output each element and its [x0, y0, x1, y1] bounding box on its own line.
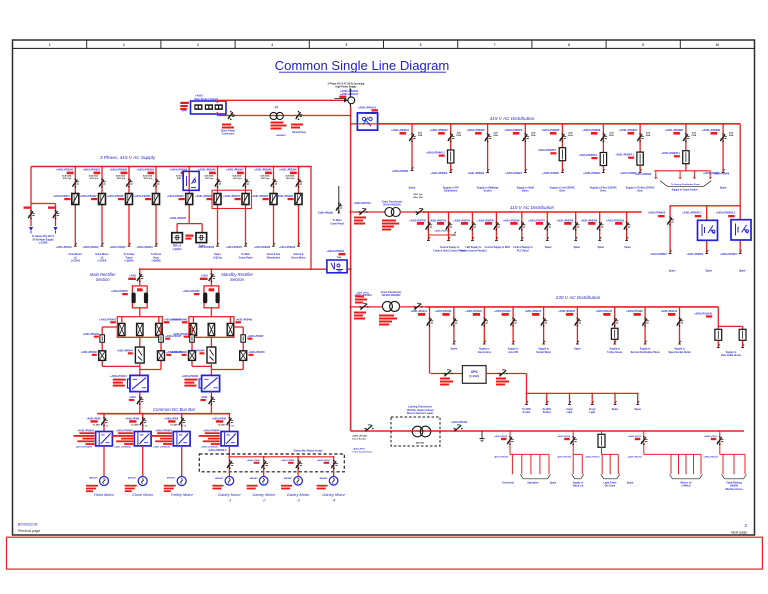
switch Q15 — [560, 134, 565, 141]
wire 230V right corner — [717, 307, 719, 327]
feeder 415V #2 — [450, 124, 452, 173]
switch standby Q1 — [209, 274, 214, 281]
switch QD2 — [140, 418, 145, 425]
drive U1 — [96, 432, 113, 446]
svg-text:Spare: Spare — [720, 186, 727, 189]
svg-text:3 Phase 415 V AC 50 Hz Incomin: 3 Phase 415 V AC 50 Hz Incoming — [328, 83, 365, 86]
feeder 110V right #1 — [669, 206, 671, 254]
svg-text:BCM31128: BCM31128 — [18, 521, 38, 526]
fuse F230-R1 — [717, 326, 719, 329]
svg-text:Service Distribution Panel: Service Distribution Panel — [631, 351, 660, 354]
feeder 110V #2 — [448, 212, 450, 241]
svg-text:+A001+P008#2.1: +A001+P008#2.1 — [682, 212, 702, 215]
feeder 3ph #1 — [74, 167, 76, 247]
feeder 230V #6 — [576, 307, 578, 344]
fuse F230-7 — [611, 328, 618, 339]
svg-text:Shore Power: Shore Power — [221, 131, 235, 133]
svg-text:+A001 (+P006#4): +A001 (+P006#4) — [201, 445, 218, 448]
feeder 3ph #2 — [101, 167, 103, 247]
feeder 230V #1 — [429, 307, 431, 374]
label drive 1 — [79, 432, 94, 434]
gantry tap #1 — [228, 457, 230, 477]
switch Q33-4 — [510, 319, 515, 326]
svg-text:+A001+P003#7: +A001+P003#7 — [226, 169, 244, 172]
svg-text:Crane Socket Panel: Crane Socket Panel — [353, 451, 373, 454]
svg-text:(+Q10x): (+Q10x) — [173, 248, 182, 251]
svg-text:Socket: Socket — [484, 190, 492, 193]
switch Q22 — [416, 209, 423, 215]
switch Q23-5 — [519, 223, 524, 230]
svg-text:+A001+P004#4: +A001+P004#4 — [188, 350, 205, 353]
switch Q13 — [485, 134, 490, 141]
wire UPS riser — [526, 374, 528, 394]
svg-text:+A001+P003#4: +A001+P003#4 — [134, 195, 151, 198]
svg-text:+A001+P011#7: +A001+P011#7 — [596, 310, 613, 313]
svg-text:480VAC: 480VAC — [284, 477, 293, 480]
svg-text:Motors x5: Motors x5 — [681, 481, 693, 484]
fuse F18 — [683, 151, 689, 164]
switch Q16 — [601, 134, 606, 141]
svg-text:+A001+P011#6: +A001+P011#6 — [558, 310, 575, 313]
svg-text:Socket: Socket — [543, 411, 551, 414]
wire standby right branch — [234, 326, 243, 328]
switch main DC — [139, 392, 141, 414]
svg-text:+A001+P003#4: +A001+P003#4 — [136, 169, 154, 172]
bottom red box — [7, 537, 763, 569]
svg-text:DC 480V: DC 480V — [218, 424, 226, 427]
motor gantry M1 — [225, 477, 234, 486]
wire standby centre — [210, 337, 212, 347]
svg-text:+A001+P008#2.2: +A001+P008#2.2 — [716, 212, 736, 215]
svg-text:+A001+P006#4: +A001+P006#4 — [203, 429, 220, 432]
svg-text:+A001+P011#3: +A001+P011#3 — [465, 310, 482, 313]
motor M3 — [177, 477, 186, 486]
switch Q19 — [720, 134, 725, 141]
svg-text:+A001+P009#6: +A001+P009#6 — [583, 172, 600, 175]
switch Q35 — [499, 370, 506, 376]
svg-text:Section: Section — [230, 277, 245, 282]
svg-text:+A001+P011#1: +A001+P011#1 — [410, 310, 427, 313]
svg-text:+A001+P003#6: +A001+P003#6 — [198, 169, 216, 172]
svg-text:+A001+P010: +A001+P010 — [356, 292, 370, 295]
svg-text:+A001: +A001 — [201, 274, 209, 277]
svg-text:+A001+P004#9: +A001+P004#9 — [173, 333, 190, 336]
incoming drop B — [55, 204, 57, 227]
svg-text:30 kVA 400/110V: 30 kVA 400/110V — [383, 203, 401, 206]
lashing transformer box — [391, 417, 440, 446]
wire gantry drive to busbar — [228, 446, 230, 457]
switch Q23-2 — [446, 223, 451, 230]
switch Q24 right cluster — [667, 218, 672, 225]
motor M1 — [100, 477, 109, 486]
svg-text:630A: 630A — [646, 134, 651, 137]
svg-text:+A001 (+P006#1): +A001 (+P006#1) — [75, 445, 92, 448]
svg-text:415V 3ph: 415V 3ph — [261, 177, 270, 180]
svg-text:+A001+P003#3: +A001+P003#3 — [109, 246, 126, 249]
drive U3 — [173, 432, 190, 446]
svg-text:+A001+P012#2: +A001+P012#2 — [703, 455, 718, 458]
svg-text:+A001+P009#9: +A001+P009#9 — [713, 173, 730, 176]
incoming drop A — [30, 204, 32, 227]
svg-text:+A001+P003#7: +A001+P003#7 — [223, 195, 240, 198]
switch Q3ph-9 — [296, 180, 301, 187]
svg-text:+A001+P009#2.1: +A001+P009#2.1 — [426, 152, 445, 155]
svg-text:5x 230V: 5x 230V — [522, 409, 531, 411]
svg-text:Section: Section — [96, 277, 111, 282]
svg-text:+A001+P012#2: +A001+P012#2 — [557, 455, 572, 458]
svg-text:+A001+P006#2.2: +A001+P006#2.2 — [208, 449, 227, 452]
feeder 110V right #3 — [739, 206, 741, 254]
svg-text:480VAC: 480VAC — [215, 477, 224, 480]
rectifier unit main — [128, 379, 131, 388]
breaker standby right — [240, 351, 247, 361]
svg-text:480VDC: 480VDC — [128, 477, 137, 480]
feeder 3ph #8 — [273, 167, 275, 247]
svg-text:Cable Reeling: Cable Reeling — [726, 482, 742, 484]
feeder 230V #2 — [453, 307, 455, 344]
svg-text:630A: 630A — [493, 134, 498, 137]
switch Q18 — [683, 134, 688, 141]
switch incoming — [53, 211, 58, 218]
svg-text:(1 kVA): (1 kVA) — [469, 374, 479, 378]
UPS unit — [462, 366, 486, 384]
svg-text:+A001+P004#8: +A001+P004#8 — [81, 351, 98, 354]
svg-text:+A001+P003#3: +A001+P003#3 — [109, 169, 127, 172]
svg-text:+A001+P003#2: +A001+P003#2 — [82, 246, 99, 249]
wire main left branch — [102, 326, 117, 328]
feeder 415V #3 — [487, 124, 489, 173]
svg-text:+A001+P012: +A001+P012 — [353, 448, 366, 451]
svg-text:+A001+P009#1: +A001+P009#1 — [391, 128, 410, 132]
svg-text:Trolley Motor: Trolley Motor — [170, 492, 193, 497]
switch Q33-6 — [575, 319, 580, 326]
switch Q23-6 — [545, 223, 550, 230]
svg-text:10: 10 — [716, 43, 720, 47]
svg-text:Connection: Connection — [222, 132, 235, 135]
svg-text:(+Q406): (+Q406) — [152, 260, 161, 263]
bus 415V AC — [378, 123, 741, 125]
svg-text:PLC Panel: PLC Panel — [517, 250, 529, 252]
switch Q11 — [409, 134, 414, 141]
svg-text:440/230V: 440/230V — [416, 442, 425, 445]
drive drop #3 — [181, 414, 183, 432]
lashing group #3 bracket — [601, 474, 620, 479]
svg-text:+A001+P003#9: +A001+P003#9 — [279, 169, 297, 172]
fuse F15 — [559, 148, 565, 161]
bus DC — [97, 413, 229, 415]
svg-text:7: 7 — [494, 43, 496, 47]
wire UPS out — [486, 373, 526, 375]
svg-text:+A001+P003#5: +A001+P003#5 — [169, 217, 186, 220]
switch Q01 shore isolator — [228, 112, 233, 119]
svg-text:(+Q10x): (+Q10x) — [213, 256, 222, 259]
svg-text:+A001+P006: +A001+P006 — [164, 417, 179, 420]
switch Q12 — [448, 134, 453, 141]
svg-text:+A001+P004#5: +A001+P004#5 — [111, 290, 128, 293]
svg-text:Control Supply to MCC: Control Supply to MCC — [485, 246, 511, 249]
svg-text:+A001+P009#1: +A001+P009#1 — [392, 170, 409, 173]
svg-text:(+C204): (+C204) — [98, 260, 107, 263]
svg-text:Distribution: Distribution — [444, 190, 458, 193]
svg-text:Socket Wiper: Socket Wiper — [536, 351, 551, 354]
svg-text:415V 3ph: 415V 3ph — [233, 177, 242, 180]
feeder 110V #1 — [427, 212, 429, 241]
svg-text:+A001+P009#4: +A001+P009#4 — [504, 128, 523, 132]
svg-text:+A001+P003#3: +A001+P003#3 — [107, 195, 124, 198]
lashing group #3 comb — [602, 453, 619, 455]
svg-text:+A001+P009#8.1: +A001+P009#8.1 — [661, 152, 680, 155]
svg-text:+A001+P006: +A001+P006 — [86, 417, 101, 420]
feeder 3ph #7 — [245, 167, 247, 247]
svg-text:+A001+P012#2: +A001+P012#2 — [451, 421, 468, 424]
choke main — [132, 286, 147, 308]
switch Q23-3 — [470, 223, 475, 230]
svg-text:Spare: Spare — [597, 247, 604, 249]
svg-text:+A001+P004#5: +A001+P004#5 — [183, 290, 200, 293]
wire riser to rectifier feed — [310, 167, 312, 270]
svg-text:+A001+P003#5: +A001+P003#5 — [167, 195, 184, 198]
wire 230V link — [400, 306, 427, 308]
wire standby choke to box — [210, 308, 212, 317]
svg-text:415V 3ph: 415V 3ph — [144, 177, 153, 180]
svg-text:8: 8 — [568, 43, 570, 47]
svg-text:Flood: Flood — [589, 409, 596, 411]
svg-text:415 V AC Distribution: 415 V AC Distribution — [490, 116, 535, 121]
feeder 415V #4 — [524, 124, 526, 173]
drive drop #2 — [142, 414, 144, 432]
svg-text:+A001+P007#5: +A001+P007#5 — [477, 219, 494, 222]
label RSD — [186, 235, 194, 237]
lashing group #4 bracket — [670, 474, 703, 479]
choke standby — [204, 286, 219, 308]
gantry tap #3 — [297, 457, 299, 477]
svg-text:+A001+P006: +A001+P006 — [317, 459, 331, 462]
lashing group #2 bracket — [572, 474, 584, 479]
svg-text:Spare: Spare — [574, 349, 581, 351]
svg-text:(1000V): (1000V) — [730, 486, 739, 488]
svg-text:+A001+P011#10: +A001+P011#10 — [694, 313, 713, 316]
switch Q02 — [296, 112, 301, 119]
svg-text:+A001+P009#5.1: +A001+P009#5.1 — [538, 149, 557, 152]
svg-text:+A001+P005#2: +A001+P005#2 — [326, 250, 344, 253]
svg-text:+A001+P006#1: +A001+P006#1 — [77, 429, 94, 432]
svg-text:630A: 630A — [729, 134, 734, 137]
svg-text:+A001+P006: +A001+P006 — [212, 417, 227, 420]
contactor K6 — [214, 194, 221, 205]
lashing group #1 comb — [510, 453, 549, 455]
svg-text:Crane Socket: Crane Socket — [352, 438, 366, 441]
svg-text:Supply to: Supply to — [726, 351, 737, 354]
fuse main right — [159, 335, 164, 342]
switch Q33-5 — [541, 319, 546, 326]
svg-text:(+Q305): (+Q305) — [125, 260, 134, 263]
RSD loop — [177, 223, 202, 225]
lashing group #5 comb — [720, 453, 745, 455]
svg-text:480VDC: 480VDC — [167, 477, 176, 480]
switch standby DC — [210, 392, 212, 414]
svg-text:Control Supply to: Control Supply to — [513, 246, 533, 249]
svg-text:Supply to: Supply to — [538, 348, 549, 351]
svg-text:+A001+P007#9: +A001+P007#9 — [580, 219, 597, 222]
svg-text:4: 4 — [271, 43, 273, 47]
svg-text:+A001+P011#8: +A001+P011#8 — [626, 310, 643, 313]
svg-text:Close Motor: Close Motor — [132, 492, 154, 497]
svg-text:+A001+P003#7: +A001+P003#7 — [226, 246, 243, 249]
label drive 2 — [118, 432, 133, 434]
svg-text:Distr.: Distr. — [600, 190, 606, 193]
wire 110V link — [400, 211, 428, 213]
lashing group #5 switch — [719, 431, 721, 454]
svg-text:+A001+P007#6: +A001+P007#6 — [503, 219, 520, 222]
svg-text:+A001+P003#9: +A001+P003#9 — [279, 246, 296, 249]
svg-text:+A001+P011#2: +A001+P011#2 — [435, 310, 452, 313]
bus 110V — [424, 211, 642, 213]
svg-text:+A001: +A001 — [129, 274, 137, 277]
switch main Q1 — [137, 274, 142, 281]
svg-text:+A001+P007#1: +A001+P007#1 — [353, 202, 371, 205]
svg-text:(+C204): (+C204) — [39, 242, 48, 245]
lashing group #4 switch — [643, 431, 645, 454]
svg-text:630A: 630A — [418, 134, 423, 137]
svg-text:+A001+P011#5: +A001+P011#5 — [524, 310, 541, 313]
svg-text:415V 3ph: 415V 3ph — [286, 177, 295, 180]
svg-text:+A001+P006: +A001+P006 — [247, 459, 261, 462]
feeder 110V #3 — [471, 212, 473, 241]
svg-text:+A001+P012#2: +A001+P012#2 — [585, 455, 600, 458]
svg-text:+A001+P003#9: +A001+P003#9 — [276, 195, 293, 198]
feeder 230V #3 — [483, 307, 485, 344]
feeder 110V #9 — [626, 212, 628, 241]
contactor K4 — [153, 194, 160, 205]
contactor K2 — [99, 194, 106, 205]
lashing group #5 bracket — [722, 474, 747, 479]
svg-text:Machine House: Machine House — [725, 489, 743, 491]
svg-text:Spare: Spare — [634, 409, 641, 411]
transformer lashing — [412, 426, 423, 437]
switch Q3ph-5 — [186, 180, 191, 187]
svg-text:+A001+P009#6: +A001+P009#6 — [582, 128, 601, 132]
svg-text:Festoon(s): Festoon(s) — [502, 481, 514, 484]
svg-text:Common Single Line Diagram: Common Single Line Diagram — [275, 58, 450, 73]
contactor K3 — [126, 194, 133, 205]
svg-text:Cable Weight: Cable Weight — [318, 212, 333, 215]
feeder 415V #8 — [685, 124, 687, 171]
feeder 230V #7 — [614, 307, 616, 344]
switch Q3ph-6 — [215, 180, 220, 187]
svg-text:On Crane: On Crane — [605, 486, 616, 488]
svg-text:To Gantry Distribution Panel: To Gantry Distribution Panel — [671, 183, 700, 186]
switch Q3ph-2 — [99, 180, 104, 187]
wire 230V branch — [351, 306, 383, 308]
svg-text:+A001+P008#3: +A001+P008#3 — [648, 212, 666, 215]
svg-text:+A001+P003#2: +A001+P003#2 — [80, 195, 97, 198]
feeder UPS #4 — [591, 393, 593, 404]
svg-text:50Hz, 63A: 50Hz, 63A — [413, 196, 423, 199]
feeder 415V #7 — [639, 124, 641, 173]
drive U4 — [221, 432, 238, 446]
svg-text:Common DC Bus Bar: Common DC Bus Bar — [153, 407, 196, 412]
svg-text:Crane Transformer: Crane Transformer — [381, 292, 402, 294]
feeder 110V #4 — [495, 212, 497, 241]
switch Q33-1 — [427, 319, 432, 326]
svg-text:+A001+P003#8: +A001+P003#8 — [254, 169, 272, 172]
RSD resistor box 2 — [196, 233, 207, 243]
transformer PT — [270, 112, 277, 119]
svg-text:3 Phase, 415 V AC Supply: 3 Phase, 415 V AC Supply — [100, 155, 156, 160]
feeder 110V #6 — [546, 212, 548, 241]
svg-text:Supply to: Supply to — [573, 481, 584, 484]
feeder 415V #5 — [561, 124, 563, 173]
contactor K7 — [242, 194, 249, 205]
svg-text:+A001+P012: +A001+P012 — [628, 435, 642, 438]
svg-text:+A001+P006#3: +A001+P006#3 — [155, 429, 172, 432]
svg-text:Hoist Motor: Hoist Motor — [94, 492, 115, 497]
feeder UPS #5 — [614, 393, 616, 404]
svg-text:-1: -1 — [228, 497, 231, 502]
svg-text:6: 6 — [420, 43, 422, 47]
svg-text:Main Rectifier: Main Rectifier — [90, 272, 116, 277]
lashing group #2 comb — [573, 453, 582, 455]
svg-text:+A001+P012: +A001+P012 — [704, 435, 718, 438]
svg-text:+A001+P007#8: +A001+P007#8 — [556, 219, 573, 222]
svg-text:+A001+P009#7.1: +A001+P009#7.1 — [615, 154, 634, 157]
motor gantry M4 — [329, 477, 338, 486]
svg-text:415V 3ph: 415V 3ph — [117, 177, 126, 180]
wire rectifier standby drop — [210, 269, 212, 286]
svg-text:Next page: Next page — [731, 530, 747, 534]
svg-text:ACB 2000A: ACB 2000A — [365, 112, 376, 115]
svg-text:+A001+P009#3: +A001+P009#3 — [467, 172, 484, 175]
svg-text:+A001+P009#7: +A001+P009#7 — [619, 128, 638, 132]
feeder 110V #7 — [575, 212, 577, 241]
svg-text:+A001+P009#2: +A001+P009#2 — [430, 172, 447, 175]
svg-text:+A001+P003#8: +A001+P003#8 — [254, 246, 271, 249]
earth switch lashing — [481, 431, 483, 439]
svg-text:Basin: Basin — [522, 190, 529, 193]
svg-text:Spare: Spare — [573, 247, 580, 249]
svg-text:+A001+P003#1: +A001+P003#1 — [56, 169, 74, 172]
svg-text:Joist 230: Joist 230 — [508, 351, 519, 354]
svg-text:630A: 630A — [456, 134, 461, 137]
switch Q3ph-3 — [126, 180, 131, 187]
fuse F12 — [448, 150, 454, 163]
svg-text:110 V AC Distribution: 110 V AC Distribution — [510, 205, 555, 210]
wire main centre — [139, 337, 141, 347]
svg-text:3 Ph: 3 Ph — [182, 111, 187, 113]
switch Q21 — [359, 209, 366, 215]
switch Q3ph-1 — [73, 180, 78, 187]
drive drop #1 — [103, 414, 105, 432]
svg-text:+A001+P009#5: +A001+P009#5 — [542, 172, 559, 175]
svg-text:+A001+P006: +A001+P006 — [281, 459, 295, 462]
svg-text:TSA: TSA — [337, 256, 342, 259]
breaker U01 main incoming — [357, 113, 377, 130]
TSA earthing unit — [327, 260, 347, 273]
wire main choke to box — [139, 308, 141, 317]
fuse F16 — [600, 153, 606, 166]
svg-text:415V, 3ph: 415V, 3ph — [413, 193, 423, 196]
switch Q33-2 — [451, 319, 456, 326]
feeder 3ph #5 — [188, 167, 190, 223]
svg-text:(+M4xx): (+M4xx) — [682, 485, 691, 488]
svg-text:+A001+P004#1: +A001+P004#1 — [182, 375, 199, 378]
svg-text:Crane: Crane — [566, 409, 573, 411]
svg-text:DC 480V: DC 480V — [131, 424, 139, 427]
motor M2 — [138, 477, 147, 486]
svg-text:+A001+P012#2: +A001+P012#2 — [493, 455, 508, 458]
switch Q3ph-8 — [271, 180, 276, 187]
feeder 3ph #4 — [155, 167, 157, 247]
